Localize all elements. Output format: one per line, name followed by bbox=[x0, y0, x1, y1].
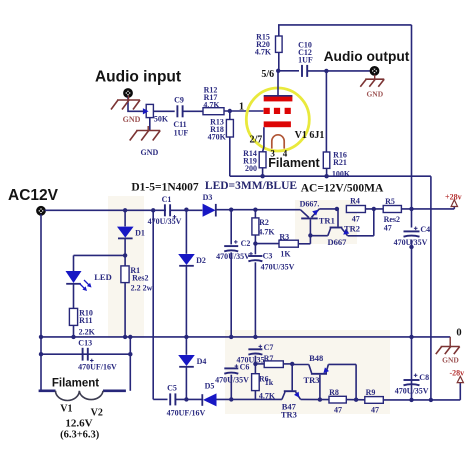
wire D5 to C6 node bbox=[217, 397, 282, 401]
wire signal gnd to zero bbox=[430, 176, 432, 400]
capacitor C4 470U/35V bbox=[404, 231, 420, 249]
label B48 bbox=[309, 353, 323, 363]
label D2 bbox=[196, 256, 206, 265]
resistor R15 4.7K bbox=[276, 36, 283, 52]
svg-text:C4: C4 bbox=[420, 225, 430, 234]
ground GND1 at input jack bbox=[111, 96, 140, 110]
svg-text:-28v: -28v bbox=[449, 369, 464, 378]
svg-text:50K: 50K bbox=[154, 114, 169, 123]
label Audio input bbox=[95, 69, 181, 86]
label Filament bottom bbox=[52, 378, 99, 390]
label C8 bbox=[419, 373, 429, 382]
label 470U/35 C7 bbox=[237, 356, 265, 365]
capacitor C5 470UF/16V bbox=[170, 393, 175, 405]
label R2 bbox=[259, 218, 269, 227]
LED D6 bbox=[66, 271, 92, 291]
svg-text:C7: C7 bbox=[264, 343, 274, 352]
svg-text:470K: 470K bbox=[208, 133, 227, 142]
label +28v bbox=[445, 192, 462, 201]
svg-text:Audio output: Audio output bbox=[324, 49, 410, 64]
label R16 bbox=[333, 151, 347, 160]
wire R7 to B47 node bbox=[283, 362, 294, 366]
wire R8 to R9 bbox=[346, 398, 365, 402]
svg-text:470U/35V: 470U/35V bbox=[395, 387, 429, 396]
svg-text:GND: GND bbox=[442, 356, 459, 365]
tube grid dashes bbox=[264, 108, 291, 114]
svg-text:12.6V: 12.6V bbox=[65, 417, 92, 429]
svg-text:100K: 100K bbox=[332, 170, 351, 179]
label R5 bbox=[385, 197, 395, 206]
transistor B48 TR3 bbox=[292, 364, 356, 399]
svg-text:GND: GND bbox=[123, 115, 141, 124]
label R6 bbox=[259, 375, 269, 384]
svg-text:Filament: Filament bbox=[52, 378, 99, 390]
label 5/6 bbox=[261, 69, 274, 80]
diode D1 bbox=[117, 210, 134, 238]
wire pot to ground bbox=[149, 118, 151, 131]
svg-text:LED=3MM/BLUE: LED=3MM/BLUE bbox=[205, 180, 297, 192]
wire pot to C9 bbox=[153, 110, 174, 112]
ground GND3 at output bbox=[360, 75, 384, 87]
label 4.7K R2 bbox=[258, 228, 275, 237]
transistor B47 TR3 bbox=[282, 364, 301, 400]
resistor R4 47 bbox=[346, 206, 365, 213]
wire R12 to grid pin 1 bbox=[224, 109, 263, 113]
label GND2 bbox=[141, 148, 159, 157]
label 0 bbox=[456, 327, 461, 338]
resistor R7 bbox=[255, 361, 283, 368]
label 2/7 bbox=[250, 134, 263, 145]
svg-text:(6.3+6.3): (6.3+6.3) bbox=[60, 429, 100, 440]
resistor R8 47 bbox=[329, 396, 346, 403]
capacitor C6 470U/35V bbox=[224, 368, 238, 399]
label Res2 R1 bbox=[132, 273, 148, 282]
wire R5 to +28v bbox=[401, 207, 454, 212]
wire D3 to TR1 bbox=[216, 208, 301, 212]
svg-text:C9: C9 bbox=[174, 96, 184, 105]
svg-text:47: 47 bbox=[371, 405, 379, 414]
label C7 bbox=[264, 343, 274, 352]
capacitor C10 1UF bbox=[302, 65, 307, 77]
label D4 bbox=[197, 357, 207, 366]
svg-text:R2: R2 bbox=[259, 218, 269, 227]
svg-text:R4: R4 bbox=[350, 197, 360, 206]
plus C4 bbox=[414, 227, 418, 231]
capacitor C7 470U/35V bbox=[248, 349, 262, 366]
resistor R2 4.7K bbox=[252, 210, 259, 235]
svg-text:1K: 1K bbox=[280, 250, 291, 259]
label LED=3MM/BLUE bbox=[205, 180, 297, 192]
wire TR1 emitter bus bbox=[310, 235, 327, 237]
capacitor C3 470U/35V bbox=[248, 256, 262, 339]
svg-text:4.7K: 4.7K bbox=[258, 228, 275, 237]
wire R14 to signal ground bbox=[262, 168, 264, 176]
label Audio output bbox=[324, 49, 410, 64]
label 470U/35V C1 bbox=[148, 217, 182, 226]
wire R6 to bottom bbox=[254, 391, 256, 400]
svg-text:2.2 2w: 2.2 2w bbox=[131, 284, 153, 293]
capacitor C13 wire bbox=[41, 353, 130, 355]
label 470U/35V C2 bbox=[216, 252, 250, 261]
label R17 bbox=[204, 93, 218, 102]
label R14 bbox=[243, 149, 257, 158]
label B47 bbox=[282, 401, 297, 411]
wire top rail bbox=[279, 25, 412, 53]
svg-text:1UF: 1UF bbox=[174, 129, 189, 138]
label Filament tube bbox=[268, 156, 320, 170]
wire AC main bbox=[45, 208, 166, 212]
plus C1 bbox=[173, 215, 177, 219]
label 2.2 2w bbox=[131, 284, 153, 293]
wire AC down left bbox=[39, 214, 43, 390]
label C1 bbox=[162, 195, 172, 204]
resistor R1 2.2 2w bbox=[121, 266, 129, 283]
svg-text:47: 47 bbox=[334, 405, 342, 414]
resistor R14 200 bbox=[259, 152, 266, 168]
label Res2 R5 bbox=[384, 215, 400, 224]
svg-text:47: 47 bbox=[352, 215, 360, 224]
svg-text:D2: D2 bbox=[196, 256, 206, 265]
capacitor C13 470UF/16V bbox=[83, 348, 88, 361]
label 470K bbox=[208, 133, 227, 142]
plus C7 bbox=[259, 345, 263, 349]
label LED bbox=[94, 272, 111, 282]
svg-text:Audio input: Audio input bbox=[95, 69, 181, 86]
svg-text:1: 1 bbox=[239, 101, 244, 112]
plus C13 bbox=[90, 359, 94, 363]
label D1-5=1N4007 bbox=[131, 182, 198, 194]
tube filament arc bbox=[272, 135, 284, 149]
label V2 heater bbox=[91, 407, 103, 418]
label 12.6V bbox=[65, 417, 92, 429]
svg-text:Res2: Res2 bbox=[132, 273, 148, 282]
resistor R16 100K bbox=[323, 152, 330, 168]
svg-text:200: 200 bbox=[245, 164, 257, 173]
label R10 bbox=[79, 308, 93, 317]
label 47 R5 bbox=[384, 223, 392, 232]
svg-text:5/6: 5/6 bbox=[261, 69, 274, 80]
svg-text:C3: C3 bbox=[263, 252, 273, 261]
svg-text:GND: GND bbox=[366, 90, 383, 99]
wire LED branch bbox=[74, 255, 126, 271]
label 470U/35V C4 bbox=[394, 238, 428, 247]
label D3 bbox=[203, 193, 213, 202]
svg-text:4.7K: 4.7K bbox=[203, 100, 220, 109]
wire TR1 to R4 node bbox=[319, 207, 339, 211]
label R9 bbox=[366, 388, 376, 397]
label R12 bbox=[204, 86, 218, 95]
connector J2 audio output bbox=[371, 67, 378, 74]
label pin 1 bbox=[239, 101, 244, 112]
svg-text:C2: C2 bbox=[241, 239, 251, 248]
label C10 bbox=[298, 40, 312, 49]
plus C8 bbox=[414, 374, 418, 378]
label 4.7K R6 bbox=[259, 391, 276, 400]
label D667 TR2 bbox=[328, 237, 348, 247]
svg-text:470UF/16V: 470UF/16V bbox=[78, 362, 117, 371]
wire C5 to D5 bbox=[175, 398, 202, 400]
wire anode node to C10 bbox=[278, 70, 299, 72]
svg-text:TR3: TR3 bbox=[303, 375, 319, 385]
wire D2 branch top bbox=[184, 208, 188, 254]
label C6 bbox=[240, 363, 250, 372]
wire signal ground bus bbox=[230, 174, 431, 178]
label 4.7K R12 bbox=[203, 100, 220, 109]
svg-text:D667.: D667. bbox=[300, 200, 320, 209]
label 200 bbox=[245, 164, 257, 173]
resistor R5 47 bbox=[383, 206, 401, 213]
label C11 bbox=[173, 120, 186, 129]
label C3 bbox=[263, 252, 273, 261]
capacitor C9 1UF bbox=[177, 105, 182, 117]
wire C9 to R12 bbox=[183, 110, 203, 112]
background tint patches bbox=[108, 196, 390, 414]
resistor R13 470K bbox=[226, 111, 233, 137]
label 4.7K R15 bbox=[255, 48, 272, 57]
label V1 6J1 bbox=[295, 130, 325, 141]
label 470UF/16V C13 bbox=[78, 362, 117, 371]
label GND1 bbox=[123, 115, 141, 124]
plus C6 bbox=[235, 364, 239, 368]
wire D1 to R1 bbox=[123, 239, 127, 266]
svg-text:0: 0 bbox=[456, 327, 461, 338]
svg-text:C1: C1 bbox=[162, 195, 172, 204]
svg-text:1k: 1k bbox=[265, 378, 274, 387]
diode D4 bbox=[178, 337, 195, 367]
svg-text:D5: D5 bbox=[205, 382, 215, 391]
label TR3 B47 bbox=[281, 409, 297, 419]
svg-text:V1 6J1: V1 6J1 bbox=[295, 130, 325, 141]
svg-text:V1: V1 bbox=[60, 404, 72, 415]
label GND3 bbox=[366, 90, 383, 99]
svg-text:1UF: 1UF bbox=[298, 55, 313, 64]
label C12 bbox=[298, 48, 312, 57]
label R13 bbox=[210, 118, 224, 127]
label R7 bbox=[264, 354, 274, 363]
svg-text:4.7K: 4.7K bbox=[255, 48, 272, 57]
label 47 R9 bbox=[371, 405, 379, 414]
tube anode plate bbox=[264, 95, 293, 101]
wire output node to R16 bbox=[325, 71, 327, 152]
resistor R12 4.7K bbox=[203, 108, 224, 115]
wire C10 to output jack bbox=[307, 69, 370, 73]
label R4 bbox=[350, 197, 360, 206]
svg-text:R3: R3 bbox=[279, 232, 289, 241]
svg-text:D667: D667 bbox=[328, 237, 348, 247]
label R19 bbox=[243, 156, 257, 165]
resistor R9 47 bbox=[365, 397, 384, 404]
plus C2 bbox=[234, 240, 238, 244]
svg-text:D3: D3 bbox=[203, 193, 213, 202]
svg-text:C8: C8 bbox=[419, 373, 429, 382]
svg-text:AC12V: AC12V bbox=[8, 187, 59, 204]
ground GND4 zero volt bbox=[436, 342, 460, 354]
svg-text:47: 47 bbox=[384, 223, 392, 232]
svg-text:TR1: TR1 bbox=[319, 215, 335, 225]
label pin 4 bbox=[283, 148, 288, 158]
tube heater coil bbox=[39, 391, 126, 401]
svg-text:LED: LED bbox=[94, 272, 111, 282]
ground GND2 below pot bbox=[130, 126, 161, 141]
svg-text:4.7K: 4.7K bbox=[259, 391, 276, 400]
wire R15 to anode bbox=[276, 52, 280, 73]
resistor R10 2.2K bbox=[69, 308, 77, 325]
label R18 bbox=[210, 125, 224, 134]
wire zero volt rail bbox=[41, 336, 450, 338]
label R15 bbox=[256, 33, 270, 42]
wire filament right leg bbox=[128, 335, 132, 391]
wire R1 to rail bbox=[123, 283, 127, 339]
wire C1 to D3 bbox=[170, 209, 202, 211]
label TR3 B48 bbox=[303, 375, 319, 385]
wire R10 to rail bbox=[71, 325, 75, 339]
wire cathode down bbox=[263, 127, 264, 152]
label AC12V bbox=[8, 187, 59, 204]
wire input jack to pot bbox=[128, 97, 146, 112]
svg-text:R5: R5 bbox=[385, 197, 395, 206]
diode D5 bbox=[202, 393, 216, 406]
wire zero stub bbox=[449, 337, 451, 343]
label AC=12V/500MA bbox=[301, 183, 384, 195]
capacitor C8 470U/35V bbox=[404, 380, 420, 385]
label R11 bbox=[79, 316, 92, 325]
label 470UF/16V C5 bbox=[167, 409, 206, 418]
wire R13 to signal ground bbox=[229, 137, 231, 176]
wire R16 to signal ground bbox=[326, 168, 328, 176]
label 470U/35V C8 bbox=[395, 387, 429, 396]
transistor TR1 D667 bbox=[300, 209, 319, 238]
label TR2 bbox=[344, 223, 360, 233]
wire node to R3 bbox=[255, 243, 279, 245]
+28v arrow bbox=[451, 200, 457, 207]
svg-text:D1: D1 bbox=[135, 229, 145, 238]
label 100K bbox=[332, 170, 351, 179]
label R8 bbox=[329, 388, 339, 397]
svg-text:470U/35V: 470U/35V bbox=[215, 375, 249, 384]
svg-text:C13: C13 bbox=[78, 339, 92, 348]
label 1K bbox=[280, 250, 291, 259]
connector J1 audio input bbox=[124, 89, 131, 96]
svg-text:GND: GND bbox=[141, 148, 159, 157]
resistor R6 1k bbox=[252, 364, 260, 391]
svg-text:D4: D4 bbox=[197, 357, 207, 366]
wire R4 to R5 bbox=[365, 207, 383, 211]
svg-text:2.2K: 2.2K bbox=[79, 327, 96, 336]
svg-text:R8: R8 bbox=[329, 388, 339, 397]
label R3 bbox=[279, 232, 289, 241]
label pin 3 bbox=[270, 148, 275, 158]
wire D2 to rail bbox=[184, 266, 188, 339]
diode D3 bbox=[203, 204, 216, 217]
svg-text:B48: B48 bbox=[309, 353, 323, 363]
label 47 R8 bbox=[334, 405, 342, 414]
wire rail dots right bbox=[409, 335, 433, 402]
label 1UF C10 bbox=[298, 55, 313, 64]
label R21 bbox=[333, 158, 347, 167]
potentiometer 50K bbox=[140, 104, 153, 117]
svg-text:R9: R9 bbox=[366, 388, 376, 397]
wire R2 to node bbox=[253, 235, 257, 254]
transistor TR2 D667 bbox=[328, 209, 374, 236]
svg-text:R11: R11 bbox=[79, 316, 92, 325]
svg-text:470U/35V: 470U/35V bbox=[394, 238, 428, 247]
label 470U/35V C6 bbox=[215, 375, 249, 384]
svg-text:D1-5=1N4007: D1-5=1N4007 bbox=[131, 182, 198, 194]
capacitor C1 470U/35V bbox=[165, 204, 170, 216]
label R20 bbox=[256, 40, 270, 49]
label D667 TR1 bbox=[300, 200, 320, 209]
svg-text:Filament: Filament bbox=[268, 156, 320, 170]
svg-text:TR3: TR3 bbox=[281, 409, 297, 419]
label V1 heater bbox=[60, 404, 72, 415]
label C9 bbox=[174, 96, 184, 105]
svg-text:R21: R21 bbox=[333, 158, 347, 167]
label C2 bbox=[241, 239, 251, 248]
label D1 bbox=[135, 229, 145, 238]
svg-text:R7: R7 bbox=[264, 354, 274, 363]
label 1UF bbox=[174, 129, 189, 138]
label 470U/35V C3 bbox=[261, 263, 295, 272]
label -28v bbox=[449, 369, 464, 378]
resistor R3 1K bbox=[279, 240, 298, 247]
tube envelope V1 bbox=[246, 88, 309, 151]
svg-text:470U/35V: 470U/35V bbox=[216, 252, 250, 261]
wire B47 to R8 bbox=[301, 397, 329, 401]
wire R9 to -28v bbox=[383, 383, 460, 400]
label 1k R6 bbox=[265, 378, 274, 387]
label D5 bbox=[205, 382, 215, 391]
capacitor C2 470U/35V bbox=[224, 210, 238, 339]
label C5 bbox=[167, 384, 177, 393]
-28v arrow bbox=[457, 376, 463, 382]
svg-text:2/7: 2/7 bbox=[250, 134, 263, 145]
label 50K bbox=[154, 114, 169, 123]
wire x153 branch bbox=[153, 210, 167, 400]
svg-text:470UF/16V: 470UF/16V bbox=[167, 409, 206, 418]
label 2.2K bbox=[79, 327, 96, 336]
wire anode up bbox=[277, 71, 279, 95]
svg-text:470U/35V: 470U/35V bbox=[261, 263, 295, 272]
label 47 R4 bbox=[352, 215, 360, 224]
label (6.3+6.3) bbox=[60, 429, 100, 440]
diode D2 bbox=[178, 254, 195, 266]
wire LED to R10 bbox=[73, 284, 75, 308]
svg-text:TR2: TR2 bbox=[344, 223, 360, 233]
connector J3 AC12V bbox=[37, 207, 44, 214]
plus C3 bbox=[249, 252, 253, 256]
svg-text:C5: C5 bbox=[167, 384, 177, 393]
label R1 bbox=[130, 266, 140, 275]
label GND4 bbox=[442, 356, 459, 365]
label TR1 bbox=[319, 215, 335, 225]
svg-text:+28v: +28v bbox=[445, 192, 462, 201]
svg-text:AC=12V/500MA: AC=12V/500MA bbox=[301, 183, 384, 195]
label C13 bbox=[78, 339, 92, 348]
wire R3 to TR1 emitter node bbox=[298, 235, 310, 243]
wire right vertical +28 rail bbox=[411, 25, 413, 400]
wire D4 to bottom bbox=[184, 367, 188, 402]
tube cathode plate bbox=[264, 121, 291, 127]
label C4 bbox=[420, 225, 430, 234]
